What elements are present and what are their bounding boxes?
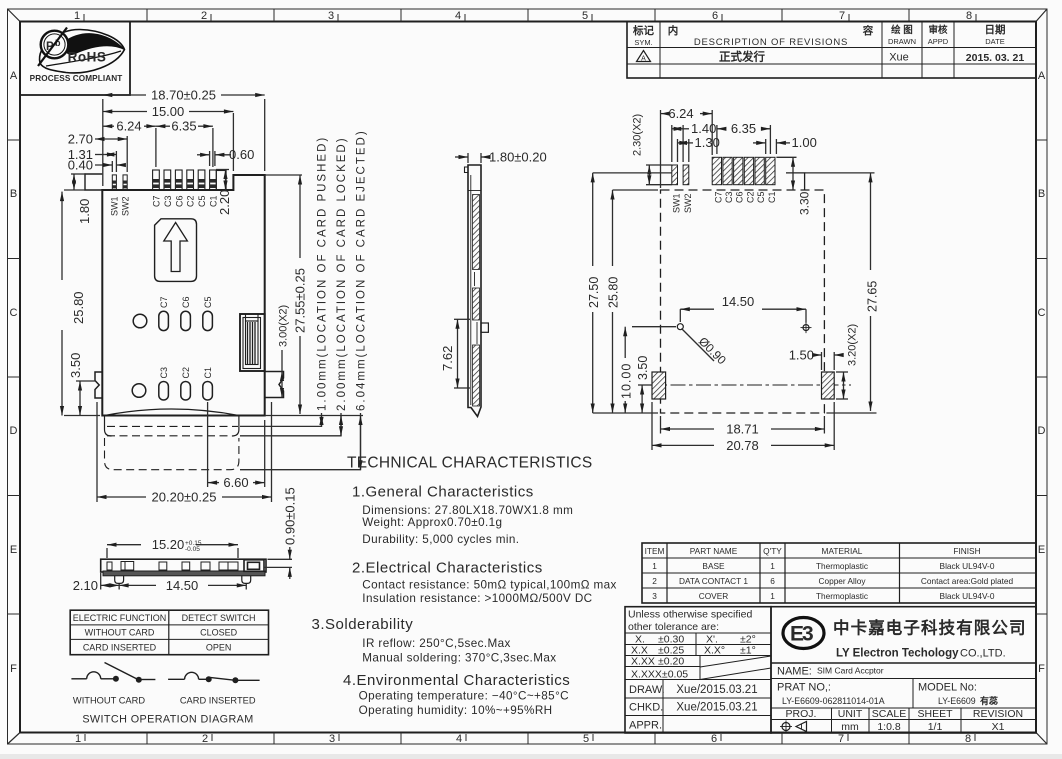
svg-text:3.50: 3.50 xyxy=(636,356,650,380)
svg-text:有蕊: 有蕊 xyxy=(980,695,998,706)
svg-text:Xue/2015.03.21: Xue/2015.03.21 xyxy=(676,702,757,714)
dim 7.62 (side view) xyxy=(454,319,470,388)
svg-text:X.XXX±0.05: X.XXX±0.05 xyxy=(631,669,688,681)
svg-text:3: 3 xyxy=(652,591,657,601)
pad SW2 (footprint) xyxy=(683,165,689,185)
svg-text:E: E xyxy=(1038,544,1045,556)
svg-text:日期: 日期 xyxy=(985,23,1006,36)
svg-text:C7: C7 xyxy=(159,296,169,308)
card stop latch (right side of top view) xyxy=(240,314,265,371)
lower dome labels C3 C2 C1 xyxy=(159,367,213,379)
svg-text:C2: C2 xyxy=(745,191,755,203)
card outline solid below body xyxy=(105,416,239,437)
svg-text:E: E xyxy=(10,544,17,556)
card location dim 6.04mm EJECTED xyxy=(240,413,363,470)
svg-text:绘 图: 绘 图 xyxy=(891,24,913,36)
svg-text:20.20±0.25: 20.20±0.25 xyxy=(152,490,217,505)
dim 18.70±0.25 xyxy=(103,95,265,186)
revision row 1 xyxy=(637,50,1025,65)
svg-text:SW1: SW1 xyxy=(672,193,682,213)
mounting hole right with cross xyxy=(801,322,812,333)
switch symbol: card inserted xyxy=(168,672,260,680)
svg-text:Black UL94V-0: Black UL94V-0 xyxy=(940,561,995,571)
company logo E3 xyxy=(783,618,824,649)
svg-text:2.20: 2.20 xyxy=(217,190,232,215)
footprint pad labels SW1 SW2 xyxy=(672,193,693,213)
dim 25.80 xyxy=(62,192,100,416)
svg-text:D: D xyxy=(1038,425,1046,437)
svg-text:DATE: DATE xyxy=(985,37,1004,46)
svg-text:D: D xyxy=(10,425,18,437)
svg-text:COVER: COVER xyxy=(699,591,729,601)
svg-text:25.80: 25.80 xyxy=(71,291,86,324)
svg-text:ELECTRIC FUNCTION: ELECTRIC FUNCTION xyxy=(73,613,167,623)
svg-text:SW2: SW2 xyxy=(683,193,693,213)
dim 27.65 xyxy=(805,173,877,413)
svg-text:DATA CONTACT 1: DATA CONTACT 1 xyxy=(679,576,748,586)
svg-text:Contact resistance: 50mΩ typ: Contact resistance: 50mΩ typical,100mΩ m… xyxy=(362,579,616,592)
contact pins C7 C3 C6 C2 C5 C1 (top view) xyxy=(153,170,217,190)
svg-text:CO.,LTD.: CO.,LTD. xyxy=(960,648,1006,660)
svg-text:1.General Characteristics: 1.General Characteristics xyxy=(352,484,534,501)
svg-text:B: B xyxy=(10,188,17,200)
svg-text:C: C xyxy=(10,307,18,319)
svg-text:C2: C2 xyxy=(186,195,196,207)
svg-text:SIM Card Accptor: SIM Card Accptor xyxy=(817,666,884,676)
dim 10.00 xyxy=(625,327,676,413)
svg-text:20.78: 20.78 xyxy=(726,438,759,453)
svg-text:2: 2 xyxy=(202,733,208,745)
svg-text:1.00: 1.00 xyxy=(792,135,817,150)
BOTTOM SIDE VIEW body xyxy=(101,559,266,576)
svg-text:CLOSED: CLOSED xyxy=(200,628,238,638)
svg-text:15.20: 15.20 xyxy=(152,537,185,552)
side view top details xyxy=(107,562,238,571)
dim 6.24 (footprint) xyxy=(661,110,713,188)
svg-text:WITHOUT CARD: WITHOUT CARD xyxy=(73,696,145,706)
dim 0.60 xyxy=(197,151,231,166)
dim 3.20(X2) xyxy=(836,372,848,399)
svg-text:Black UL94V-0: Black UL94V-0 xyxy=(940,591,995,601)
pad SW1 (footprint) xyxy=(672,165,678,185)
SIM card icon with chamfer xyxy=(155,219,197,282)
svg-text:2.30(X2): 2.30(X2) xyxy=(632,114,644,156)
svg-text:±0.20: ±0.20 xyxy=(658,656,684,668)
svg-text:3.00(X2): 3.00(X2) xyxy=(278,305,290,347)
dim 25.80 (footprint) xyxy=(593,190,658,413)
svg-text:1.00mm(LOCATION OF CARD PUSHED: 1.00mm(LOCATION OF CARD PUSHED) xyxy=(317,136,329,411)
svg-text:14.50: 14.50 xyxy=(166,578,199,593)
svg-text:C7: C7 xyxy=(713,191,723,203)
svg-text:3.50: 3.50 xyxy=(68,353,83,378)
dim 1.80±0.20 (side view) xyxy=(455,153,487,163)
svg-text:5: 5 xyxy=(583,733,589,745)
svg-text:SCALE: SCALE xyxy=(872,708,906,720)
dim 3.50 (footprint) xyxy=(638,385,652,413)
dim 15.00 xyxy=(103,112,234,172)
svg-text:BASE: BASE xyxy=(702,561,725,571)
dim 6.24 (top view) xyxy=(103,126,156,167)
svg-text:MATERIAL: MATERIAL xyxy=(822,546,863,556)
svg-text:C6: C6 xyxy=(174,195,184,207)
svg-text:1/1: 1/1 xyxy=(928,721,943,733)
dim 1.31 xyxy=(95,151,116,172)
svg-text:27.65: 27.65 xyxy=(866,281,880,312)
svg-text:审核: 审核 xyxy=(928,24,948,36)
svg-text:E3: E3 xyxy=(790,623,813,646)
svg-text:C5: C5 xyxy=(756,191,766,203)
svg-text:Thermoplastic: Thermoplastic xyxy=(816,591,868,601)
svg-text:C2: C2 xyxy=(181,367,191,379)
svg-text:Contact area:Gold plated: Contact area:Gold plated xyxy=(921,576,1014,586)
svg-text:DESCRIPTION OF REVISIONS: DESCRIPTION OF REVISIONS xyxy=(694,37,848,48)
svg-text:18.71: 18.71 xyxy=(726,421,759,436)
svg-text:2.10: 2.10 xyxy=(73,578,98,593)
switch pin SW1 (top view) xyxy=(112,175,116,190)
svg-text:PART NAME: PART NAME xyxy=(690,546,738,556)
svg-text:DRAWN: DRAWN xyxy=(888,37,916,46)
dim 2.10 xyxy=(101,573,119,590)
card insert arrow icon xyxy=(164,223,188,272)
svg-text:UNIT: UNIT xyxy=(838,708,863,720)
svg-text:8: 8 xyxy=(965,733,971,745)
svg-text:2015. 03. 21: 2015. 03. 21 xyxy=(966,52,1025,64)
svg-text:APPD: APPD xyxy=(928,37,949,46)
dim 0.90±0.15 xyxy=(264,547,292,579)
top-left shell ear xyxy=(85,174,102,190)
svg-text:1.80±0.20: 1.80±0.20 xyxy=(489,149,547,164)
dim 6.60 xyxy=(208,402,265,487)
RoHS logo box xyxy=(20,22,130,96)
bottom pad left (footprint) xyxy=(652,372,666,399)
svg-text:3.Solderability: 3.Solderability xyxy=(312,616,414,633)
svg-text:4.Environmental Characteristi: 4.Environmental Characteristics xyxy=(343,672,570,689)
svg-text:4: 4 xyxy=(456,733,462,745)
svg-text:C: C xyxy=(1038,307,1046,319)
parts table xyxy=(642,543,1036,603)
svg-text:中卡嘉电子科技有限公司: 中卡嘉电子科技有限公司 xyxy=(833,618,1027,638)
svg-text:C1: C1 xyxy=(203,367,213,379)
svg-text:Xue/2015.03.21: Xue/2015.03.21 xyxy=(676,684,757,696)
svg-text:TECHNICAL CHARACTERISTICS: TECHNICAL CHARACTERISTICS xyxy=(347,455,592,472)
svg-text:C6: C6 xyxy=(735,191,745,203)
pin labels SW1 SW2 xyxy=(110,196,131,216)
dim 2.30(X2) xyxy=(646,165,672,185)
dim 3.50 (top view) xyxy=(76,381,96,416)
svg-text:LY Electron Techology: LY Electron Techology xyxy=(836,648,959,660)
svg-text:SWITCH OPERATION DIAGRAM: SWITCH OPERATION DIAGRAM xyxy=(82,714,253,726)
mounting hole left xyxy=(677,324,683,330)
switch function table xyxy=(70,610,268,655)
svg-text:Copper Alloy: Copper Alloy xyxy=(818,576,866,586)
svg-text:内: 内 xyxy=(668,24,679,37)
svg-text:A: A xyxy=(10,70,18,82)
svg-text:2: 2 xyxy=(201,10,207,22)
dim 6.35 (footprint) xyxy=(717,125,771,154)
svg-text:8: 8 xyxy=(966,10,972,22)
bottom pad right (footprint) xyxy=(822,372,835,399)
revision table header text xyxy=(632,23,1006,48)
RoHS leaf logo xyxy=(30,28,125,84)
svg-text:1: 1 xyxy=(770,591,775,601)
svg-text:4: 4 xyxy=(455,10,461,22)
svg-text:ITEM: ITEM xyxy=(645,546,665,556)
TOP VIEW: connector body outline xyxy=(102,175,264,416)
projection symbol xyxy=(780,721,807,733)
svg-text:6.04mm(LOCATION OF CARD EJECTE: 6.04mm(LOCATION OF CARD EJECTED) xyxy=(356,129,368,411)
footprint centerline xyxy=(645,384,851,386)
svg-text:6: 6 xyxy=(711,733,717,745)
side view feet xyxy=(115,576,251,584)
zone letters left xyxy=(10,70,18,675)
svg-text:3: 3 xyxy=(329,733,335,745)
leader Ø0.90 xyxy=(682,329,715,362)
dim 2.20 xyxy=(216,170,229,191)
svg-text:mm: mm xyxy=(841,721,859,733)
svg-text:1: 1 xyxy=(75,733,81,745)
svg-text:Q'TY: Q'TY xyxy=(763,546,782,556)
svg-text:2.00mm(LOCATION OF CARD LOCKED: 2.00mm(LOCATION OF CARD LOCKED) xyxy=(336,136,348,411)
svg-text:0.40: 0.40 xyxy=(68,157,93,172)
svg-text:DRAW.: DRAW. xyxy=(629,684,665,696)
BOTTOM VIEW (pcb footprint) dashed outline xyxy=(661,190,825,413)
svg-text:X.XX: X.XX xyxy=(631,656,655,668)
switch symbol: without card xyxy=(71,663,155,680)
left edge notch feature xyxy=(95,372,102,398)
svg-text:18.70±0.25: 18.70±0.25 xyxy=(151,88,216,103)
tolerance block xyxy=(625,607,771,733)
svg-text:F: F xyxy=(1038,663,1045,675)
svg-text:6: 6 xyxy=(770,576,775,586)
svg-text:SYM.: SYM. xyxy=(634,38,652,47)
title block company area xyxy=(771,607,1036,733)
dim 27.55±0.25 xyxy=(265,175,302,414)
svg-text:正式发行: 正式发行 xyxy=(719,50,765,64)
zone numbers bottom xyxy=(75,733,971,745)
svg-text:1.30: 1.30 xyxy=(695,135,720,150)
side view latch bump xyxy=(481,323,488,332)
projection row values xyxy=(841,721,1004,733)
svg-text:6.60: 6.60 xyxy=(223,475,248,490)
svg-text:B: B xyxy=(1038,188,1045,200)
dim 20.78 xyxy=(652,402,834,450)
svg-text:C5: C5 xyxy=(203,296,213,308)
card location dim 1.00mm PUSHED xyxy=(240,413,322,426)
dim 18.71 xyxy=(661,416,825,434)
svg-text:RoHS: RoHS xyxy=(68,50,107,65)
dim 3.30 (footprint) xyxy=(776,157,796,190)
svg-text:A: A xyxy=(641,56,646,63)
svg-text:WITHOUT CARD: WITHOUT CARD xyxy=(85,628,155,638)
svg-text:7: 7 xyxy=(839,10,845,22)
svg-text:7: 7 xyxy=(838,733,844,745)
svg-text:C7: C7 xyxy=(152,195,162,207)
svg-text:PROCESS COMPLIANT: PROCESS COMPLIANT xyxy=(30,74,123,83)
svg-text:A: A xyxy=(1038,70,1046,82)
dim 1.50 xyxy=(816,352,841,370)
svg-text:DETECT SWITCH: DETECT SWITCH xyxy=(182,613,256,623)
svg-text:Weight: Approx0.70±0.1g: Weight: Approx0.70±0.1g xyxy=(362,516,502,529)
svg-text:10.00: 10.00 xyxy=(619,363,633,399)
svg-text:CARD INSERTED: CARD INSERTED xyxy=(180,696,256,706)
side view end block xyxy=(244,560,264,572)
svg-text:X1: X1 xyxy=(992,721,1005,733)
dim 3.00(X2) xyxy=(281,350,283,398)
svg-text:0.90±0.15: 0.90±0.15 xyxy=(282,487,297,545)
svg-text:1:0.8: 1:0.8 xyxy=(877,721,901,733)
svg-text:C3: C3 xyxy=(724,191,734,203)
upper dome labels C7 C6 C5 xyxy=(159,296,213,308)
svg-text:C5: C5 xyxy=(197,195,207,207)
card location dim 2.00mm LOCKED xyxy=(240,413,341,436)
svg-text:2.70: 2.70 xyxy=(68,132,93,147)
svg-text:APPR.: APPR. xyxy=(629,720,662,732)
pads C7 C3 C6 C2 C5 C1 (footprint) xyxy=(712,157,775,184)
svg-text:NAME:: NAME: xyxy=(777,666,812,678)
svg-text:C6: C6 xyxy=(181,296,191,308)
svg-text:6: 6 xyxy=(712,10,718,22)
svg-text:SHEET: SHEET xyxy=(917,708,953,720)
projection row header xyxy=(786,708,1024,720)
svg-text:±1°: ±1° xyxy=(740,645,756,657)
svg-text:25.80: 25.80 xyxy=(606,277,620,308)
svg-text:PRAT NO,:: PRAT NO,: xyxy=(777,682,831,694)
svg-text:1: 1 xyxy=(652,561,657,571)
dim 15.20 +0.15/-0.05 xyxy=(107,545,238,558)
svg-text:SW2: SW2 xyxy=(120,196,130,216)
card position dashed lines xyxy=(105,426,239,469)
contact dome row lower: circle + ovals C3 C2 C1 xyxy=(132,382,212,401)
footprint pad labels C7 C3 C6 C2 C5 C1 xyxy=(713,191,777,203)
svg-text:C3: C3 xyxy=(163,195,173,207)
side view hatched core xyxy=(468,175,481,406)
dim 20.20±0.25 xyxy=(97,402,272,502)
svg-text:7.62: 7.62 xyxy=(440,346,455,371)
dim 1.40 (footprint) xyxy=(672,125,689,162)
svg-text:CHKD.: CHKD. xyxy=(629,702,663,714)
svg-text:1: 1 xyxy=(74,10,80,22)
svg-text:容: 容 xyxy=(862,24,874,37)
dim 2.70 xyxy=(95,136,127,172)
revision table xyxy=(627,22,1036,79)
svg-text:PROJ.: PROJ. xyxy=(786,708,817,720)
svg-text:15.00: 15.00 xyxy=(152,104,185,119)
dim 0.40 xyxy=(95,161,124,172)
svg-text:FINISH: FINISH xyxy=(953,546,980,556)
svg-text:C3: C3 xyxy=(159,367,169,379)
svg-text:MODEL No:: MODEL No: xyxy=(918,682,977,694)
dim 27.50 xyxy=(593,173,672,413)
zone letters right xyxy=(1038,70,1046,675)
svg-text:27.55±0.25: 27.55±0.25 xyxy=(293,268,308,333)
svg-text:Thermoplastic: Thermoplastic xyxy=(816,561,868,571)
svg-text:LY-E6609-062811014-01A: LY-E6609-062811014-01A xyxy=(782,696,885,706)
svg-text:6.35: 6.35 xyxy=(731,121,756,136)
zone numbers top xyxy=(74,10,972,22)
svg-text:6.24: 6.24 xyxy=(116,119,141,134)
svg-text:3.20(X2): 3.20(X2) xyxy=(847,324,859,366)
svg-text:Operating temperature: −40°C~: Operating temperature: −40°C~+85°C xyxy=(359,689,569,702)
svg-text:2: 2 xyxy=(652,576,657,586)
svg-text:5: 5 xyxy=(582,10,588,22)
right edge notch tab xyxy=(265,372,284,398)
footprint solid step at right xyxy=(786,173,805,190)
svg-text:1.40: 1.40 xyxy=(691,121,716,136)
svg-text:3: 3 xyxy=(328,10,334,22)
svg-text:标记: 标记 xyxy=(632,24,654,37)
svg-text:0.60: 0.60 xyxy=(229,147,254,162)
svg-text:2.Electrical Characteristics: 2.Electrical Characteristics xyxy=(352,559,543,576)
SIDE VIEW (middle) outline xyxy=(465,165,482,417)
svg-text:SW1: SW1 xyxy=(110,196,120,216)
dim 1.80 (top view left) xyxy=(64,174,86,190)
pin labels C7 C3 C6 C2 C5 C1 xyxy=(152,195,219,207)
dim 14.50 (side view feet) xyxy=(119,584,246,590)
svg-text:27.50: 27.50 xyxy=(587,277,601,308)
svg-text:1.80: 1.80 xyxy=(77,199,92,224)
svg-text:1: 1 xyxy=(770,561,775,571)
svg-text:Durability: 5,000 cycles min: Durability: 5,000 cycles min. xyxy=(362,533,519,546)
dim 1.30 (footprint) xyxy=(678,139,694,162)
svg-text:C1: C1 xyxy=(767,191,777,203)
svg-text:OPEN: OPEN xyxy=(206,643,232,653)
end tab pin (top view) xyxy=(216,171,226,191)
svg-text:IR reflow: 250°C,5sec.Max: IR reflow: 250°C,5sec.Max xyxy=(362,637,510,650)
svg-text:3.30: 3.30 xyxy=(798,191,812,215)
svg-text:Xue: Xue xyxy=(889,52,909,64)
svg-text:-0.05: -0.05 xyxy=(185,546,200,553)
dim 1.00 (footprint) xyxy=(753,139,790,154)
svg-text:CARD INSERTED: CARD INSERTED xyxy=(83,643,157,653)
svg-text:6.35: 6.35 xyxy=(171,119,196,134)
svg-text:other tolerance are:: other tolerance are: xyxy=(628,621,719,633)
dim 14.50 (footprint holes) xyxy=(680,309,806,322)
dim 6.35 (top view) xyxy=(156,126,213,167)
svg-text:6.24: 6.24 xyxy=(668,106,693,121)
svg-text:14.50: 14.50 xyxy=(722,294,755,309)
svg-text:LY-E6609: LY-E6609 xyxy=(938,696,976,706)
svg-text:REVISION: REVISION xyxy=(973,708,1023,720)
svg-text:F: F xyxy=(10,663,17,675)
svg-text:X.X°: X.X° xyxy=(704,645,725,657)
svg-text:1.50: 1.50 xyxy=(789,347,814,362)
card edge arc in slot xyxy=(105,409,239,416)
svg-text:Unless otherwise specified: Unless otherwise specified xyxy=(628,609,752,621)
svg-text:Operating humidity: 10%~+95%R: Operating humidity: 10%~+95%RH xyxy=(359,704,553,717)
switch pin SW2 (top view) xyxy=(123,175,127,190)
svg-text:Insulation resistance: >1000M: Insulation resistance: >1000MΩ/500V DC xyxy=(362,592,592,605)
contact dome row upper: circle + ovals C7 C6 C5 xyxy=(133,311,212,330)
svg-text:Manual soldering: 370°C,3sec.: Manual soldering: 370°C,3sec.Max xyxy=(362,651,556,664)
